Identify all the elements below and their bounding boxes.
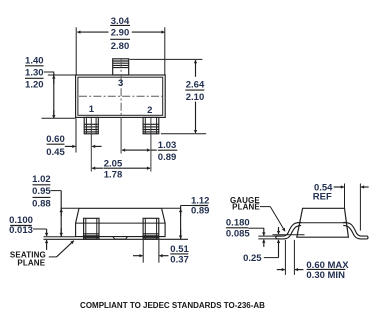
svg-text:2.90: 2.90 [111, 28, 130, 39]
svg-text:1.78: 1.78 [104, 169, 123, 180]
horizontal centerline [79, 95, 163, 97]
SEATING PLANE label [10, 241, 74, 268]
svg-text:2.10: 2.10 [186, 92, 205, 103]
dimension 1.02/0.95/0.88 [32, 174, 61, 237]
svg-text:0.95: 0.95 [32, 186, 51, 197]
svg-text:0.180: 0.180 [226, 218, 250, 229]
svg-text:2.64: 2.64 [186, 79, 205, 90]
dimension 0.25 [243, 227, 278, 264]
svg-text:1.20: 1.20 [25, 80, 44, 91]
GAUGE PLANE label [230, 196, 285, 232]
svg-text:0.88: 0.88 [32, 199, 51, 210]
svg-text:REF: REF [313, 191, 332, 202]
svg-text:0.60: 0.60 [46, 134, 65, 145]
package body outer [76, 75, 166, 117]
svg-text:3: 3 [118, 78, 123, 89]
svg-text:1.02: 1.02 [32, 174, 51, 185]
package body (side) [76, 208, 166, 236]
seating plane line [44, 238, 189, 240]
svg-text:PLANE: PLANE [17, 259, 45, 268]
foot bottom extension [258, 238, 280, 240]
svg-text:PLANE: PLANE [232, 202, 260, 211]
dimension 1.12/0.89 [181, 195, 210, 239]
parting line [76, 222, 166, 224]
dimension 0.60 MAX / 0.30 MIN [277, 240, 350, 281]
svg-text:0.89: 0.89 [158, 152, 177, 163]
body top extension left [61, 207, 80, 209]
parting line (end) [300, 222, 347, 224]
vertical centerline [120, 60, 122, 118]
dimension 0.100/0.013 [9, 215, 46, 250]
dimension 1.40/1.30/1.20 [25, 55, 76, 118]
svg-text:1.40: 1.40 [25, 55, 44, 66]
left lead (end) [276, 223, 302, 239]
lead 1 (bottom-left) [84, 117, 98, 133]
bottom center bump [113, 237, 128, 240]
svg-text:0.45: 0.45 [46, 147, 65, 158]
svg-text:0.37: 0.37 [170, 255, 189, 266]
dimension 0.60/0.45 [46, 119, 101, 159]
lead 2 (bottom-right) [143, 117, 159, 133]
dimension 2.05/1.78 [92, 158, 150, 180]
svg-text:0.89: 0.89 [191, 206, 210, 217]
dimension 3.04/2.90/2.80 [76, 16, 165, 75]
gauge plane line [273, 234, 305, 236]
body top extension right [162, 207, 182, 209]
svg-text:1.30: 1.30 [25, 67, 44, 78]
dimension 0.54 REF [313, 183, 369, 231]
lead 3 (top) [113, 59, 129, 75]
dimension 0.180/0.085 [226, 218, 264, 247]
body bottom extension (left) [44, 236, 76, 238]
package body inner [78, 77, 163, 115]
package body (end) [297, 208, 349, 237]
dimension 2.64/2.10 [130, 59, 207, 133]
left lead (side) [84, 218, 99, 239]
svg-text:2: 2 [147, 105, 152, 116]
svg-text:1: 1 [89, 104, 95, 115]
svg-text:0.30 MIN: 0.30 MIN [306, 270, 345, 281]
svg-text:COMPLIANT TO JEDEC STANDARDS T: COMPLIANT TO JEDEC STANDARDS TO-236-AB [80, 301, 265, 310]
lead 1 centerline [90, 118, 92, 172]
svg-text:0.013: 0.013 [9, 225, 33, 236]
dimension 1.03/0.89 [122, 140, 177, 163]
svg-text:0.085: 0.085 [226, 229, 250, 240]
svg-text:2.80: 2.80 [111, 41, 130, 52]
svg-text:1.03: 1.03 [158, 140, 177, 151]
right lead (end) [343, 223, 368, 239]
svg-text:0.25: 0.25 [243, 253, 262, 264]
dimension 0.51/0.37 [133, 240, 190, 266]
right lead (side) [143, 218, 159, 239]
lead 2 centerline [150, 118, 152, 172]
foot top extension [258, 235, 281, 237]
